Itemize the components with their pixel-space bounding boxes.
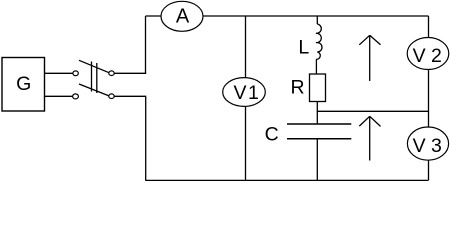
voltmeter V2 (407, 38, 449, 70)
wire top rail (146, 15, 429, 17)
generator G box (2, 58, 45, 112)
voltmeter V3 (407, 127, 448, 160)
wire LC branch top segment (316, 16, 318, 24)
switch S upper left terminal (73, 71, 78, 76)
voltmeter V1 (223, 78, 266, 107)
wire G lower output to switch (45, 95, 73, 97)
svg-text:V2: V2 (413, 45, 447, 67)
wire node junction line below R to right rail (317, 110, 428, 112)
wire right rail (428, 16, 430, 180)
inductor L coil (316, 24, 322, 59)
wire capacitor to bottom rail (316, 139, 318, 180)
ammeter A (161, 1, 203, 31)
wire resistor to capacitor (316, 102, 318, 125)
switch S upper right terminal (109, 71, 114, 76)
wire inductor to resistor (315, 59, 317, 74)
svg-text:R: R (290, 77, 304, 99)
resistor R body (310, 74, 326, 102)
wire G upper output to switch (45, 72, 74, 74)
switch S linkage bar right (96, 63, 98, 93)
wire bottom rail (145, 180, 428, 182)
svg-text:A: A (176, 6, 190, 28)
svg-text:G: G (16, 73, 31, 95)
switch S upper blade (79, 60, 109, 72)
current arrow lower (359, 116, 380, 160)
svg-text:L: L (298, 37, 309, 59)
wire V1 branch vertical (245, 16, 247, 180)
capacitor C top plate (287, 123, 351, 125)
svg-text:V3: V3 (413, 135, 447, 157)
svg-text:C: C (265, 124, 279, 146)
switch S lower left terminal (73, 94, 79, 99)
svg-text:V1: V1 (233, 82, 260, 104)
switch S linkage bar left (91, 62, 93, 92)
wire switch lower output to bottom rail (114, 96, 146, 180)
capacitor C bottom plate (287, 138, 351, 140)
current arrow upper (359, 35, 380, 81)
wire left riser from switch to top rail (145, 16, 147, 73)
switch S lower right terminal (109, 94, 114, 99)
wire switch upper output to riser (114, 72, 146, 74)
switch S lower blade (79, 84, 109, 96)
